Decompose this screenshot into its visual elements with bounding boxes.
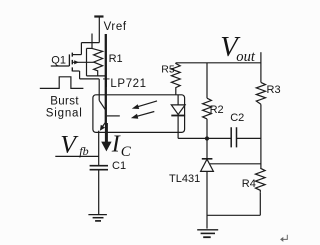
resistor R1 xyxy=(92,48,103,76)
opto-coupler U1 TLP721 box xyxy=(93,95,185,133)
light arrow 2 line xyxy=(136,112,155,117)
capacitor C2 plates xyxy=(231,127,236,147)
wire Vfb xyxy=(55,155,98,157)
wire R3 top xyxy=(260,52,262,82)
transistor emitter diagonal xyxy=(102,123,105,127)
shunt regulator TL431 triangle xyxy=(201,159,214,171)
svg-text:R5: R5 xyxy=(161,63,175,75)
LED top lead xyxy=(177,95,179,105)
wire collector drop xyxy=(98,79,100,101)
wire R2 top xyxy=(206,63,208,98)
transistor collector diagonal xyxy=(99,100,105,109)
wire R2 to TL431 xyxy=(206,119,208,159)
svg-text:C1: C1 xyxy=(112,160,126,172)
resistor R3 xyxy=(256,82,265,104)
svg-text:C: C xyxy=(121,144,132,160)
wire R1 box bottom xyxy=(87,75,106,77)
power symbol Vref bar xyxy=(94,15,103,17)
wire LED cathode rail to C2 xyxy=(178,137,231,139)
svg-text:V: V xyxy=(60,130,79,159)
shunt regulator TL431 cathode bar xyxy=(202,158,213,160)
svg-text:I: I xyxy=(111,132,121,158)
wire R1 top lead xyxy=(91,34,93,49)
ground left xyxy=(88,214,107,216)
svg-text:R4: R4 xyxy=(242,178,256,190)
resistor R2 xyxy=(203,98,212,119)
wire Q1 body stub xyxy=(72,61,93,63)
wire rail from Vref to drain riser xyxy=(81,42,99,44)
svg-text:C2: C2 xyxy=(230,112,244,124)
transistor Q1 gate lead xyxy=(51,65,70,67)
svg-text:Burst: Burst xyxy=(50,96,79,108)
current arrow IC head xyxy=(101,142,111,152)
wire R1 box top xyxy=(87,47,93,49)
wire source drop xyxy=(79,71,81,79)
svg-text:Vref: Vref xyxy=(104,21,127,33)
arrowhead light arrow 2 xyxy=(131,114,138,119)
arrowhead light arrow 1 xyxy=(132,104,139,109)
wire emitter down to C1 xyxy=(98,131,100,166)
svg-text:out: out xyxy=(236,49,256,65)
light arrow 1 line xyxy=(137,101,158,107)
transistor base stub xyxy=(107,115,120,117)
wire drain stub xyxy=(72,54,81,56)
current arrow IC shaft xyxy=(105,123,108,144)
wire bottom rail xyxy=(207,214,260,216)
wire Q1 source stub xyxy=(72,70,79,72)
pilcrow return mark xyxy=(283,235,288,240)
svg-text:R1: R1 xyxy=(109,53,123,65)
svg-text:fb: fb xyxy=(79,144,88,158)
LED D1 triangle xyxy=(171,105,185,115)
LED cathode bar xyxy=(171,115,185,117)
svg-text:TL431: TL431 xyxy=(169,173,200,185)
ground right xyxy=(197,229,218,231)
svg-text:R3: R3 xyxy=(267,84,281,96)
svg-text:TLP721: TLP721 xyxy=(103,78,147,90)
arrowhead Q1 body arrow xyxy=(74,60,79,64)
wire R3 to R4 xyxy=(260,104,262,168)
wire TL431 anode down xyxy=(206,171,208,228)
svg-text:R2: R2 xyxy=(210,104,224,116)
resistor R4 xyxy=(256,168,266,192)
wire R4 bottom xyxy=(259,192,261,215)
transistor Q1 channel segments xyxy=(71,53,73,72)
capacitor C1 plates xyxy=(90,166,108,170)
wire C2 right xyxy=(237,137,261,139)
LED bottom lead xyxy=(177,116,179,138)
wire Vout rail xyxy=(176,62,261,64)
transistor Q1 gate bar xyxy=(68,54,70,66)
arrowhead emitter xyxy=(100,125,105,131)
wire R1 box left xyxy=(86,48,88,76)
resistor R5 xyxy=(171,63,180,95)
svg-text:Signal: Signal xyxy=(46,108,83,120)
wire C1 to ground xyxy=(98,170,100,214)
junction dot xyxy=(205,136,209,140)
svg-text:Q1: Q1 xyxy=(51,54,66,66)
wire thick vertical to opto base xyxy=(105,34,107,123)
wire TL431 ref line xyxy=(210,163,261,165)
wire drain riser xyxy=(80,43,82,55)
wire Vref stem xyxy=(98,17,100,43)
burst signal waveform xyxy=(40,77,84,89)
wire source run xyxy=(80,78,100,80)
